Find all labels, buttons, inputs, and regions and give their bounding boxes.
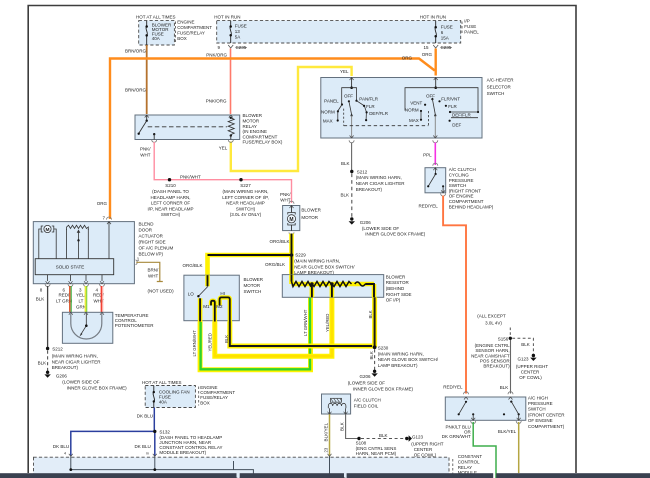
wire BLK dashed S156 to G123: [512, 338, 533, 354]
svg-text:G206: G206: [359, 374, 371, 379]
label PNK/WHT at motor: [280, 192, 291, 203]
svg-text:HOT AT ALL TIMES: HOT AT ALL TIMES: [142, 380, 182, 385]
svg-text:LO: LO: [188, 291, 195, 296]
svg-text:OFF: OFF: [426, 94, 435, 99]
svg-text:I/P: I/P: [464, 18, 470, 23]
label: engine compartment fuse/relay box: [176, 20, 213, 44]
svg-text:BLOWER: BLOWER: [244, 277, 264, 282]
svg-text:MOTOR: MOTOR: [301, 215, 318, 220]
ground G206 (glove box, middle): [348, 370, 414, 392]
svg-text:A/C CLUTCH: A/C CLUTCH: [354, 397, 381, 402]
svg-text:m: m: [146, 451, 149, 455]
actuator input lead from pin 7: [108, 222, 110, 259]
wire LT GRN/WHT switch to resistor: [192, 297, 310, 370]
svg-text:BEHIND HEADLAMP): BEHIND HEADLAMP): [449, 204, 494, 209]
svg-text:RED/YEL: RED/YEL: [443, 384, 463, 389]
svg-text:FIELD COIL: FIELD COIL: [354, 403, 379, 408]
svg-text:SWITCH: SWITCH: [487, 91, 505, 96]
svg-text:CENTER: CENTER: [414, 447, 433, 452]
svg-text:(LOWER SIDE OF: (LOWER SIDE OF: [362, 226, 400, 231]
svg-text:POTENTIOMETER: POTENTIOMETER: [115, 323, 155, 328]
svg-text:SWITCH: SWITCH: [449, 183, 467, 188]
A/C clutch cycling pressure switch: [425, 167, 494, 209]
svg-text:DOOR: DOOR: [139, 227, 153, 232]
fuse "COOLING FAN FUSE 40A": [153, 386, 190, 408]
svg-text:CENTER: CENTER: [521, 369, 540, 374]
svg-text:NEAR CIGAR LIGHTER: NEAR CIGAR LIGHTER: [356, 181, 406, 186]
svg-text:S132: S132: [159, 430, 170, 435]
svg-text:MAX: MAX: [409, 118, 419, 123]
svg-text:PNK/ORG: PNK/ORG: [206, 98, 227, 103]
svg-text:4: 4: [64, 451, 66, 455]
svg-text:A/C CLUTCH: A/C CLUTCH: [449, 167, 476, 172]
svg-text:PNK/: PNK/: [140, 147, 151, 152]
wire BLK dashed S108 to G123: [361, 433, 405, 439]
svg-text:HOT IN RUN: HOT IN RUN: [420, 15, 446, 20]
svg-text:(ENG CNTRL SENS: (ENG CNTRL SENS: [356, 446, 397, 451]
svg-text:DEF/FLR: DEF/FLR: [369, 111, 389, 116]
svg-text:BLEND: BLEND: [139, 221, 155, 226]
CCRM BLK/YEL internal lead: [329, 456, 331, 478]
svg-text:INNER GLOVE BOX FRAME): INNER GLOVE BOX FRAME): [67, 385, 128, 390]
actuator bottom pins 8 6 3 4: [40, 275, 105, 293]
svg-text:HOT IN RUN: HOT IN RUN: [214, 15, 240, 20]
svg-text:OF COWL): OF COWL): [414, 452, 437, 457]
wire BLK pin 8 to S212: [47, 286, 49, 347]
svg-text:S108: S108: [356, 441, 367, 446]
svg-text:NEAR CIGAR LIGHTER: NEAR CIGAR LIGHTER: [52, 359, 102, 364]
engine compartment fuse/relay box (blower motor fuse): [136, 15, 176, 45]
svg-text:DK BLU: DK BLU: [135, 444, 151, 449]
svg-text:OF ENGINE: OF ENGINE: [528, 418, 553, 423]
wire PPL selector to cycling switch: [423, 143, 438, 166]
wire DK GRN/WHT high pressure switch down: [442, 422, 496, 478]
wire YEL/RED switch to resistor: [207, 297, 332, 356]
svg-text:PRESSURE: PRESSURE: [449, 178, 474, 183]
svg-text:YEL/RED: YEL/RED: [207, 333, 212, 351]
wire BLK dashed S212 to G206 (left): [38, 351, 48, 372]
splice S132: [153, 430, 222, 456]
svg-text:PANEL: PANEL: [464, 29, 479, 34]
svg-text:PNK/WHT: PNK/WHT: [180, 174, 201, 179]
svg-text:NEAR GLOVE BOX SWITCH/: NEAR GLOVE BOX SWITCH/: [378, 357, 439, 362]
wire BRN/ORG fuse to relay: [125, 45, 147, 114]
svg-text:BLK: BLK: [500, 385, 509, 390]
blower motor switch box: [184, 275, 264, 321]
svg-text:COMPARTMENT): COMPARTMENT): [528, 424, 565, 429]
wire BLK/YEL field coil to CCRM pin 23: [323, 414, 331, 456]
svg-text:BLK: BLK: [339, 421, 344, 431]
wire BLK switch to S230: [224, 322, 374, 347]
svg-text:OF I/P): OF I/P): [386, 298, 401, 303]
svg-text:S212: S212: [52, 347, 63, 352]
svg-text:NEAR GLOVE BOX SWITCH/: NEAR GLOVE BOX SWITCH/: [294, 264, 355, 269]
svg-text:BRN/ORG: BRN/ORG: [125, 88, 147, 93]
svg-text:(MAIN WIRING HARN,: (MAIN WIRING HARN,: [223, 189, 269, 194]
label PNK/WHT relay output: [140, 147, 151, 158]
svg-text:COMPARTMENT: COMPARTMENT: [243, 134, 278, 139]
svg-text:S229: S229: [295, 253, 306, 258]
svg-text:GRN: GRN: [76, 304, 86, 309]
svg-text:13: 13: [235, 29, 241, 34]
svg-text:S156: S156: [498, 336, 509, 341]
svg-text:G123: G123: [412, 434, 424, 439]
wire RED/LT GRN pin 6: [70, 286, 71, 312]
actuator motor symbol: [39, 225, 56, 258]
CCRM internal bus: [69, 456, 253, 478]
svg-text:SOLID STATE: SOLID STATE: [56, 265, 85, 270]
splice S212 (main): [350, 169, 405, 192]
svg-text:(IN ENGINE: (IN ENGINE: [243, 129, 268, 134]
svg-text:ORG/BLK: ORG/BLK: [182, 263, 202, 268]
svg-text:WHT: WHT: [148, 274, 158, 279]
svg-text:DK BLU: DK BLU: [137, 414, 153, 419]
relay switch contact: [138, 115, 156, 140]
fuse "FUSE 6 15A": [434, 21, 452, 43]
note (ALL EXCEPT 3.0L 4V): [477, 314, 510, 337]
svg-text:(3.0L 4V ONLY): (3.0L 4V ONLY): [230, 212, 262, 217]
splice S229: [290, 253, 356, 276]
svg-text:A/C HIGH: A/C HIGH: [528, 395, 548, 400]
svg-text:INNER GLOVE BOX FRAME): INNER GLOVE BOX FRAME): [365, 232, 426, 237]
connector C235 pin 15: [424, 45, 453, 50]
splice S212 (left): [46, 347, 101, 371]
wire labels below actuator: [36, 293, 105, 310]
A/C high pressure switch: [445, 392, 565, 429]
svg-text:HOT AT ALL TIMES: HOT AT ALL TIMES: [136, 15, 176, 20]
svg-text:LEFT CORNER OF: LEFT CORNER OF: [151, 201, 190, 206]
wire BLK dashed S230 to G206: [369, 349, 375, 370]
svg-text:(MAIN WIRING HARN,: (MAIN WIRING HARN,: [356, 175, 402, 180]
svg-text:BLK: BLK: [369, 351, 374, 359]
svg-text:(MAIN WIRING HARN,: (MAIN WIRING HARN,: [378, 351, 424, 356]
svg-text:5A: 5A: [235, 35, 241, 40]
wire BLK/YEL high pressure switch down: [498, 422, 519, 473]
cooling fan fuse box (bottom left): [142, 380, 195, 408]
svg-text:BOX: BOX: [177, 36, 187, 41]
svg-text:FUSE: FUSE: [441, 24, 453, 29]
svg-text:RIGHT SIDE: RIGHT SIDE: [386, 292, 412, 297]
svg-text:RED/: RED/: [59, 293, 71, 298]
svg-text:OF COWL): OF COWL): [519, 375, 542, 380]
svg-text:WHT: WHT: [140, 152, 150, 157]
svg-text:BLOWER: BLOWER: [386, 274, 406, 279]
svg-text:(RIGHT FRONT: (RIGHT FRONT: [449, 188, 481, 193]
svg-text:FUSE/RELAY BOX): FUSE/RELAY BOX): [243, 140, 283, 145]
svg-text:BLK: BLK: [379, 433, 388, 438]
label: I/P fuse panel: [462, 18, 479, 34]
svg-text:RESISTOR: RESISTOR: [386, 280, 410, 285]
svg-text:BLK: BLK: [36, 297, 45, 302]
splice S227: [222, 178, 269, 217]
constant control relay module box: [34, 454, 483, 478]
svg-text:M: M: [46, 227, 50, 233]
ground G123 (near PCM): [405, 434, 444, 457]
ground G123 (upper right of cowl): [516, 354, 549, 380]
svg-text:(UPPER RIGHT: (UPPER RIGHT: [516, 364, 549, 369]
svg-text:G123: G123: [517, 356, 529, 361]
svg-text:(LOWER SIDE OF: (LOWER SIDE OF: [62, 380, 100, 385]
svg-text:15: 15: [424, 45, 430, 50]
wire RED/WHT pin 4: [101, 286, 102, 312]
svg-text:ORG/BLK: ORG/BLK: [265, 262, 285, 267]
svg-text:ORG/BLK: ORG/BLK: [269, 239, 289, 244]
svg-text:G206: G206: [56, 374, 68, 379]
svg-text:LAMP BREAKOUT): LAMP BREAKOUT): [378, 363, 418, 368]
svg-text:OF A/C PLENUM: OF A/C PLENUM: [139, 245, 174, 250]
blend door actuator box: [33, 216, 173, 284]
wire BLK S156 to high pressure switch: [500, 340, 511, 394]
svg-text:DEF/FLR: DEF/FLR: [452, 113, 472, 118]
wire ORG/BLK motor to S229 to switch and resistor: [182, 234, 291, 276]
svg-text:(BEHIND: (BEHIND: [386, 286, 405, 291]
svg-text:NORM: NORM: [405, 107, 419, 112]
svg-text:YEL/RED: YEL/RED: [325, 314, 330, 332]
svg-text:HARN, NEAR PCM): HARN, NEAR PCM): [356, 451, 397, 456]
svg-text:15A: 15A: [441, 35, 449, 40]
label: engine compartment fuse/relay box (bottom): [199, 385, 236, 406]
svg-text:COMPARTMENT: COMPARTMENT: [177, 25, 212, 30]
svg-text:LT: LT: [79, 299, 84, 304]
svg-text:S210: S210: [165, 183, 176, 188]
svg-text:FUSE: FUSE: [235, 23, 247, 28]
wire BLK field coil to S108: [339, 414, 357, 438]
svg-text:ENGINE: ENGINE: [177, 20, 194, 25]
svg-text:(FRONT CENTER: (FRONT CENTER: [528, 412, 565, 417]
svg-text:BRN/ORG: BRN/ORG: [125, 49, 147, 54]
svg-text:YEL: YEL: [219, 145, 228, 150]
svg-text:G206: G206: [360, 220, 372, 225]
wire DK BLU cooling fan fuse to S132 and CCRM: [53, 408, 157, 457]
svg-text:SWITCH: SWITCH: [528, 407, 546, 412]
A/C-heater selector switch box: [321, 77, 514, 138]
wire YEL/LT GRN pin 3: [85, 286, 86, 312]
selector left section wiring: [321, 78, 428, 139]
svg-text:FUSE: FUSE: [464, 24, 476, 29]
svg-text:LEFT CORNER OF I/P,: LEFT CORNER OF I/P,: [222, 195, 269, 200]
svg-text:SWITCH): SWITCH): [161, 212, 181, 217]
svg-text:INNER GLOVE BOX FRAME): INNER GLOVE BOX FRAME): [353, 386, 414, 391]
svg-text:BLK: BLK: [38, 360, 47, 365]
blower switch M2 / HI contacts: [216, 291, 230, 321]
label: blower motor relay: [243, 113, 283, 145]
blower resistor elements: [292, 275, 375, 298]
splice S230: [373, 345, 439, 368]
svg-text:M1: M1: [203, 304, 210, 309]
svg-text:PANEL: PANEL: [324, 99, 339, 104]
svg-text:BRN/: BRN/: [148, 268, 160, 273]
fuse "FUSE 13 5A": [229, 21, 246, 43]
svg-text:ORG: ORG: [402, 56, 413, 61]
svg-text:BREAKOUT): BREAKOUT): [356, 187, 383, 192]
svg-text:FUSE/RELAY: FUSE/RELAY: [177, 30, 205, 35]
blower resistor box: [282, 274, 411, 302]
blower motor M1: [283, 201, 322, 235]
svg-text:LT GRN/WHT: LT GRN/WHT: [192, 330, 197, 357]
svg-text:40A: 40A: [159, 400, 167, 405]
svg-text:SELECTOR: SELECTOR: [487, 84, 512, 89]
svg-text:RELAY: RELAY: [458, 465, 472, 470]
splice S156: [471, 336, 512, 368]
blower switch LO contact wire: [198, 298, 203, 321]
wire PNK/ORG fuse13 to relay coil: [206, 49, 231, 115]
svg-text:MOTOR: MOTOR: [244, 283, 261, 288]
svg-text:BELOW I/P): BELOW I/P): [139, 251, 164, 256]
bottom dark bar: [0, 473, 650, 478]
svg-text:A/C-HEATER: A/C-HEATER: [487, 77, 515, 82]
svg-text:MOTOR: MOTOR: [243, 119, 260, 124]
svg-text:SWITCH: SWITCH: [244, 289, 262, 294]
svg-text:MAX: MAX: [323, 119, 333, 124]
svg-text:S227: S227: [240, 183, 251, 188]
blower motor relay box: [135, 115, 240, 140]
svg-text:S230: S230: [378, 346, 389, 351]
temperature control potentiometer: [62, 312, 154, 343]
svg-text:BLK: BLK: [341, 161, 350, 166]
svg-text:PRESSURE: PRESSURE: [528, 401, 553, 406]
svg-text:DEF: DEF: [452, 122, 461, 127]
wire BLK dashed S212 to G206: [340, 174, 351, 218]
svg-text:MODULE BREAKOUT): MODULE BREAKOUT): [159, 450, 206, 455]
blower switch input stub ORG/BLK: [188, 275, 208, 297]
solid state box: [35, 259, 114, 275]
svg-text:40A: 40A: [152, 36, 160, 41]
svg-text:NORM: NORM: [321, 109, 335, 114]
ground G206 (inner glove box frame): [349, 217, 426, 236]
wire RED/YEL cycling switch to high pressure switch: [419, 196, 466, 394]
svg-text:M2: M2: [216, 304, 223, 309]
actuator feedback potentiometer: [67, 225, 89, 258]
relay pin connectors: [152, 140, 234, 143]
svg-text:(NOT USED): (NOT USED): [148, 288, 175, 293]
wire YEL relay coil to selector switch: [219, 67, 352, 171]
svg-text:PNK/: PNK/: [280, 192, 291, 197]
svg-text:PPL: PPL: [423, 152, 432, 157]
svg-text:M: M: [289, 217, 293, 223]
I/P fuse panel dashed box: [214, 15, 460, 43]
svg-text:PAN/FLR: PAN/FLR: [359, 97, 378, 102]
svg-text:FLR: FLR: [366, 104, 375, 109]
svg-text:RELAY: RELAY: [243, 124, 257, 129]
svg-text:BLK: BLK: [521, 342, 530, 347]
splice S210: [148, 178, 194, 217]
svg-text:COMPARTMENT: COMPARTMENT: [449, 199, 484, 204]
ground G206 (left): [44, 371, 127, 391]
A/C clutch field coil: [322, 394, 381, 414]
svg-text:ORG: ORG: [422, 52, 433, 57]
svg-text:(RIGHT SIDE: (RIGHT SIDE: [139, 239, 166, 244]
blower switch M1 contact: [203, 301, 215, 322]
svg-text:LT GRN/WHT: LT GRN/WHT: [303, 309, 308, 336]
svg-text:CONSTANT: CONSTANT: [458, 454, 483, 459]
svg-text:BLOWER: BLOWER: [243, 113, 263, 118]
svg-text:HEADLAMP HARN,: HEADLAMP HARN,: [151, 195, 191, 200]
svg-text:BLK/YEL: BLK/YEL: [323, 422, 328, 441]
svg-text:(MAIN WIRING HARN,: (MAIN WIRING HARN,: [52, 354, 98, 359]
selector right section wiring: [405, 78, 479, 139]
svg-text:BLK: BLK: [368, 310, 373, 318]
wire ORG from fuse 6 to selector and blend door actuator: [97, 49, 436, 220]
wire BLK resistor to S230: [368, 297, 374, 347]
svg-text:DK BLU: DK BLU: [53, 444, 69, 449]
wire PNK/WHT relay to blower motor with splices: [154, 142, 291, 203]
svg-text:(ALL EXCEPT: (ALL EXCEPT: [477, 314, 506, 319]
svg-text:BREAKOUT): BREAKOUT): [52, 365, 79, 370]
svg-text:SWITCH): SWITCH): [236, 206, 256, 211]
svg-text:BLOWER: BLOWER: [301, 208, 321, 213]
svg-text:CONTROL: CONTROL: [458, 459, 480, 464]
svg-text:BLK: BLK: [340, 193, 349, 198]
svg-text:VENT: VENT: [410, 100, 422, 105]
svg-text:ACTUATOR: ACTUATOR: [139, 233, 164, 238]
svg-text:FLR/VNT: FLR/VNT: [441, 96, 460, 101]
svg-text:I/P, NEAR HEADLAMP: I/P, NEAR HEADLAMP: [148, 206, 194, 211]
svg-text:YEL: YEL: [340, 69, 349, 74]
svg-text:OFF: OFF: [344, 94, 353, 99]
svg-text:(UPPER RIGHT: (UPPER RIGHT: [411, 441, 444, 446]
svg-text:OF ENGINE: OF ENGINE: [449, 194, 474, 199]
relay coil: [148, 117, 235, 140]
svg-text:BLK/YEL: BLK/YEL: [498, 429, 517, 434]
svg-text:CYCLING: CYCLING: [449, 173, 470, 178]
svg-text:RED/YEL: RED/YEL: [419, 204, 439, 209]
svg-text:3.0L 4V): 3.0L 4V): [485, 321, 502, 326]
svg-text:DK GRN/WHT: DK GRN/WHT: [442, 434, 471, 439]
splice S108: [356, 437, 397, 456]
svg-text:HI: HI: [220, 291, 225, 296]
svg-text:S212: S212: [357, 169, 368, 174]
svg-text:BREAKOUT): BREAKOUT): [483, 364, 510, 369]
svg-text:(LOWER SIDE OF: (LOWER SIDE OF: [348, 381, 386, 386]
wire BLK selector to S212: [341, 143, 352, 171]
svg-text:(MAIN WIRING HARN,: (MAIN WIRING HARN,: [294, 259, 340, 264]
svg-text:NEAR HEADLAMP: NEAR HEADLAMP: [226, 201, 265, 206]
actuator pin 1 BRN/WHT (not used): [136, 256, 175, 293]
connector C235 pin 9: [218, 45, 248, 50]
svg-text:BLK: BLK: [224, 335, 229, 343]
selector bottom pins: [349, 136, 438, 143]
fuse "BLOWER MOTOR FUSE 40A": [145, 21, 172, 45]
svg-text:23: 23: [323, 447, 328, 452]
svg-text:PNK/ORG: PNK/ORG: [206, 53, 227, 58]
svg-text:(DASH PANEL TO: (DASH PANEL TO: [152, 189, 189, 194]
svg-text:BOX: BOX: [200, 400, 210, 405]
svg-text:FLR: FLR: [448, 104, 457, 109]
svg-text:ORG: ORG: [97, 201, 108, 206]
